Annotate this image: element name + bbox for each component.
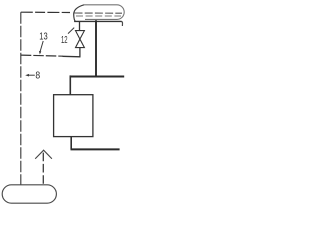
wire: box bottom stub	[70, 137, 72, 150]
wire: valve bottom stub	[79, 48, 81, 57]
wire: box top stub	[69, 75, 71, 95]
liquid level dashes inside tank row 2	[76, 15, 121, 17]
wire: mid horizontal line to right edge	[70, 76, 125, 78]
tank: top edge and right cap	[84, 5, 124, 20]
wire: dashed control line mid horizontal to valve	[21, 55, 63, 56]
leader for label 13	[40, 41, 43, 53]
wire: dashed control line 13/8 vertical run	[20, 12, 22, 184]
wire: bottom horizontal line to right	[71, 148, 120, 150]
liquid level dashes inside tank row 1	[75, 12, 123, 14]
box (unit)	[54, 95, 93, 137]
wire: tank downcomer	[95, 20, 97, 76]
arrow shaft dashed	[42, 153, 44, 185]
wire: valve stub from tank bottom	[79, 22, 81, 31]
arrow (web direction) head	[35, 150, 52, 159]
tank right bottom stub	[121, 21, 122, 26]
svg-text:13: 13	[39, 31, 48, 43]
roller (stadium)	[2, 185, 56, 203]
svg-text:12: 12	[61, 34, 68, 46]
tank: bottom manifold line	[74, 20, 122, 22]
tank: left cap curve	[74, 5, 84, 22]
wire: solid segment joining control line to valve stub	[63, 55, 81, 58]
svg-text:8: 8	[35, 70, 40, 82]
wire: dashed control line top horizontal to tank 11	[21, 11, 70, 13]
leader for label 12	[68, 28, 74, 34]
leader arrow for label 8	[27, 74, 35, 76]
valve 12 (bowtie)	[76, 31, 85, 48]
